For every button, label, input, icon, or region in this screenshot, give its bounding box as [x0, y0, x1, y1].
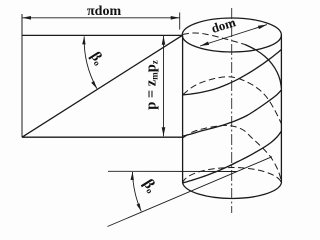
- development rectangle bottom edge: [22, 136, 183, 138]
- svg-text:βo: βo: [87, 49, 107, 68]
- helix 2 second front half-turn (solid): [183, 131, 282, 183]
- development diagonal (unrolled helix): [22, 35, 183, 137]
- pi*d_om dimension line: [22, 17, 180, 19]
- p = zm*pz pitch dimension line with arrows: [163, 36, 165, 136]
- helix 1 back half-turn (hidden, dashed): [183, 33, 246, 45]
- helix 2 front half-turn (solid): [183, 50, 281, 95]
- svg-text:p = zmpz: p = zmpz: [144, 60, 160, 110]
- d_om diameter dimension line across top ellipse: [200, 25, 267, 46]
- bottom ellipse front arc: [183, 183, 282, 198]
- development rectangle top edge: [22, 34, 183, 36]
- beta_o angle arc (top, development): [84, 36, 97, 88]
- helix 1 second back half-turn (hidden, dashed): [183, 125, 282, 182]
- cylinder axis (dash-dot centre line): [231, 8, 233, 213]
- helix 1 front half-turn (solid): [183, 90, 282, 136]
- beta_o angle arc (bottom): [133, 172, 142, 211]
- svg-text:βo: βo: [140, 177, 160, 196]
- helix 2 back half-turn (hidden, dashed): [183, 77, 282, 124]
- helix 1 back half-turn visible part (solid): [245, 45, 281, 89]
- development rectangle left edge + extension line: [21, 14, 23, 137]
- horizontal reference line (bottom angle): [108, 170, 237, 172]
- right extension line of pi*d_om dimension: [179, 13, 181, 30]
- svg-text:dom: dom: [209, 14, 237, 36]
- cylinder right side: [280, 35, 282, 183]
- bottom ellipse back arc (hidden, dashed): [183, 168, 282, 183]
- top ellipse (cylinder top face): [182, 18, 281, 52]
- cylinder left side: [182, 35, 184, 183]
- svg-text:πdom: πdom: [87, 4, 121, 19]
- inclined tangent line (helix lead angle): [108, 157, 273, 227]
